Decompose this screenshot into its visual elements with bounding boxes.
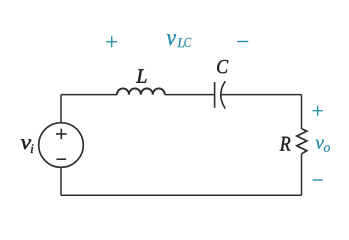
source minus sign (57, 158, 67, 160)
plus sign right for vo (313, 106, 323, 116)
capacitor C left plate (214, 82, 216, 108)
wire top-left horizontal (61, 94, 117, 96)
wire top-right (221, 94, 302, 96)
label C (217, 60, 228, 73)
plus sign top for vLC (106, 36, 117, 47)
label R (280, 137, 291, 151)
label vo o (324, 145, 330, 152)
label v_i i (31, 144, 34, 153)
label vo v (316, 140, 324, 149)
capacitor C right plate curved (221, 81, 226, 108)
label vLC C (184, 38, 191, 47)
wire left upper (60, 95, 62, 123)
inductor L (117, 88, 165, 94)
wire left lower (60, 167, 62, 195)
label v_i v (21, 139, 31, 149)
label vLC v (167, 34, 176, 45)
minus sign right for vo (313, 179, 323, 181)
wire top-middle (165, 94, 214, 96)
label vLC L (177, 38, 184, 47)
wire right lower (301, 154, 303, 196)
label L (136, 69, 147, 82)
source plus sign (56, 129, 67, 140)
resistor R zigzag (297, 129, 307, 154)
minus sign top for vLC (237, 41, 248, 43)
wire right upper (301, 95, 303, 129)
voltage source vi circle (39, 123, 84, 168)
wire bottom (61, 194, 302, 196)
